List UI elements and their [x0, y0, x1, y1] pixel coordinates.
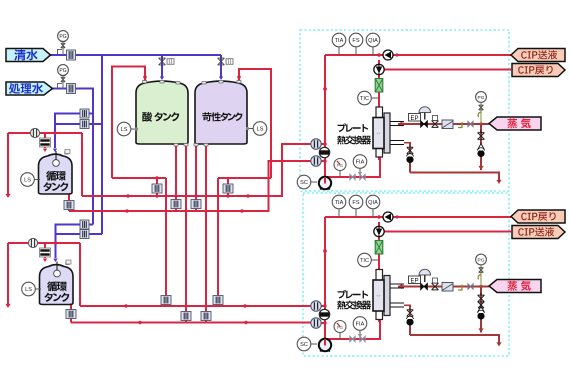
instrument LS tank4 [22, 282, 41, 296]
wire U1 exchanger outlet drop [378, 153, 380, 160]
instrument TIA U1 [332, 33, 346, 55]
wire tank1 inlet header y133 [8, 132, 82, 134]
wire 清水 branch down at x102 [101, 55, 103, 124]
strainer ST2 [442, 283, 453, 292]
svg-text:TIA: TIA [335, 38, 344, 44]
node 処理水 source [6, 82, 53, 95]
wire header y178 left segment [112, 177, 166, 179]
label 循環タンク T3 [43, 171, 68, 192]
actuator dome EP1 [419, 107, 431, 120]
node CIP戻り U2 [511, 210, 565, 223]
svg-text:TIA: TIA [335, 200, 344, 206]
svg-text:PG: PG [59, 68, 66, 74]
check valve CV3 CIP supply [383, 50, 393, 60]
wire U1 pump riser [323, 55, 327, 177]
wire drain drop x8 upper [5, 133, 10, 198]
gauge PG2 on 処理水 [58, 65, 69, 89]
wire U2 exchanger outlet drop [378, 315, 380, 322]
instrument SC U1 [297, 175, 311, 189]
control valve PCV2 steam [421, 283, 428, 290]
instrument FS U1 [349, 33, 363, 55]
wire U1 instrument header [325, 53, 511, 57]
valve SV2a discharge [350, 336, 355, 341]
node 清水 source [6, 49, 51, 62]
tank T1 acid [136, 81, 188, 147]
svg-text:TIC: TIC [360, 96, 369, 102]
wire CIP1 suction bus y196 [82, 144, 311, 198]
svg-text:QIA: QIA [368, 38, 378, 44]
wire CIP1 return bus y211 [69, 161, 311, 213]
label EP U2 [409, 276, 421, 284]
wire U2 steam supply [398, 284, 489, 289]
wire U1 return stub [311, 160, 325, 162]
label プレート熱交換器 U1 [337, 124, 371, 145]
valve AV2 CIP return [374, 226, 384, 236]
actuator dome EP2 [419, 269, 431, 282]
label EP U1 [409, 114, 421, 122]
plate heat exchanger E2 [373, 270, 390, 320]
valve GV1a suction [311, 139, 321, 149]
gauge PG U1 pump [334, 159, 346, 178]
valve relief RV1 [478, 144, 484, 150]
svg-text:PG: PG [478, 258, 485, 264]
tank T4 circulation [40, 260, 74, 305]
valve GV2b return [311, 318, 321, 328]
wire caustic tank outlet right [205, 144, 207, 323]
wire U2 return stub [311, 322, 325, 324]
pump P2 [311, 339, 331, 352]
valve XS2c bypass [478, 293, 485, 302]
wire acid tank outlet right [185, 144, 187, 323]
label 酸 タンク [142, 112, 179, 122]
wire U2 steam bypass drop [478, 287, 483, 333]
instrument TIA U2 [332, 195, 346, 217]
pump P1 [311, 177, 331, 190]
valve relief RV2 [478, 306, 484, 312]
wire U2 suction stub [311, 305, 325, 307]
tank T3 circulation [39, 150, 73, 195]
trap ball BT2a [477, 310, 484, 319]
wire tank2 water feed branch x102 [101, 124, 103, 234]
wire U2 steam PG stem [480, 266, 482, 287]
valve V10 drop x228 [223, 184, 233, 193]
instrument TIC U2 [358, 253, 379, 267]
trap TD1 [458, 122, 462, 128]
valve V16 bus4 x206 [201, 312, 211, 321]
valve V1 on 清水 [67, 50, 76, 60]
wire 清水 drop to acid tank valve [160, 55, 164, 80]
wire acid tank outlet left [174, 144, 177, 211]
svg-text:FS: FS [352, 38, 359, 44]
wire U2 heater riser [378, 222, 380, 269]
valve V2 on 処理水 [67, 84, 76, 94]
svg-text:PG: PG [59, 34, 66, 40]
valve V13 riser x166 [161, 296, 171, 305]
instrument LS tank3 [21, 173, 40, 187]
valve XS1a [432, 116, 439, 128]
wire U1 pump discharge [323, 155, 380, 179]
valve BV1 crossover [319, 147, 329, 157]
valve XV1 acid tank water inlet [159, 58, 174, 65]
valve V5 tank2 upper water [80, 220, 89, 229]
sight glass FG2 [28, 238, 57, 247]
svg-text:LS: LS [257, 127, 264, 133]
label プレート熱交換器 U2 [337, 290, 371, 310]
wire U1 suction stub [311, 143, 325, 145]
strainer ST1 [442, 120, 453, 129]
wire 清水 drop to caustic tank valve [219, 55, 223, 80]
valve XV2 caustic tank water inlet [218, 58, 233, 65]
wire header y178 right segment [218, 177, 271, 179]
valve V4 tank1 lower water [80, 120, 89, 129]
svg-text:SC: SC [300, 180, 308, 186]
svg-text:LS: LS [25, 287, 32, 293]
valve V7 tank1 outlet [64, 201, 74, 210]
valve V6 tank2 lower water [80, 230, 89, 239]
svg-text:++: ++ [376, 131, 382, 136]
instrument SC U2 [297, 337, 311, 351]
sight glass FG1 [30, 128, 56, 137]
valve XS2d condensate [407, 310, 413, 316]
valve V8 tank2 outlet [66, 310, 76, 319]
wire 処理水 header [52, 89, 93, 114]
wire U2 condensate from exchanger [404, 305, 410, 335]
wire U1 steam bypass drop [478, 124, 483, 170]
wire U2 condensate drain header [410, 335, 502, 347]
check valve CV1 tank1 feed [40, 138, 51, 147]
valve V3 tank1 upper water [80, 109, 89, 118]
wire U1 CIP return line [384, 69, 511, 71]
instrument QIA U1 [366, 33, 380, 55]
wire tank2 water feed branch x93 [92, 114, 94, 225]
valve XS2a [432, 278, 439, 290]
wire tank1 water feed lower [55, 123, 102, 125]
wire tank2 top feed drop [43, 243, 47, 262]
label 苛性タンク [202, 112, 242, 121]
valve V15 bus4 x186 [181, 312, 191, 321]
wire drain drop x8 lower [5, 243, 10, 308]
svg-text:FS: FS [352, 200, 359, 206]
control valve PCV1 steam [421, 121, 428, 128]
wire U2 instrument header [325, 215, 511, 219]
svg-text:TIC: TIC [360, 258, 369, 264]
wire U2 pump discharge [323, 317, 380, 341]
plate heat exchanger E1 [373, 107, 390, 157]
valve XS1b [468, 122, 473, 127]
instrument FIA U2 [353, 317, 367, 339]
flex joint FJ2 [375, 241, 383, 255]
wire U1 steam supply [398, 121, 489, 126]
wire riser x218 to CIP2 bus [217, 178, 219, 306]
trap ball BT2b [406, 316, 413, 325]
wire riser x166 to CIP2 bus [165, 178, 167, 306]
gauge PG1 on 清水 [58, 31, 69, 55]
svg-text:SC: SC [300, 342, 308, 348]
node CIP戻り U1 [512, 64, 565, 77]
svg-text:PG: PG [337, 163, 343, 168]
wire CIP2 suction bus y306 [80, 304, 311, 307]
valve XS1c bypass [478, 130, 485, 139]
valve V9 drop x157 [152, 184, 162, 193]
valve XS2e bypass extra [478, 302, 484, 308]
wire U1 condensate from exchanger [404, 143, 410, 173]
trap TD2 [458, 285, 462, 291]
gauge PG U1 steam [476, 92, 487, 117]
wire CIP2 return bus y322 [71, 321, 311, 324]
node 蒸気 U2 [489, 280, 541, 293]
svg-text:EP: EP [410, 278, 418, 284]
node 蒸気 U1 [489, 117, 541, 130]
wire tank2 bottom outlet [70, 304, 72, 323]
valve GV2a suction [311, 301, 321, 311]
wire caustic tank outlet left [194, 144, 197, 211]
valve SV1a discharge [350, 174, 355, 179]
wire tank1 water feed upper [53, 114, 93, 153]
wire U1 heater riser [378, 60, 380, 107]
wire tank2 inlet header y243 [8, 242, 80, 244]
node CIP送液 U1 [511, 49, 565, 62]
valve XS1d condensate [407, 147, 413, 153]
instrument TIC U1 [358, 91, 379, 105]
valve V11 acid outlet [171, 200, 181, 209]
wire riser x80 tank2 side [79, 243, 81, 306]
valve BV2 crossover [319, 309, 329, 319]
wire tank2 water feed upper [53, 225, 93, 263]
instrument QIA U2 [366, 195, 380, 217]
wire valve drop x228 [226, 178, 229, 198]
check valve CV4 CIP supply [383, 212, 393, 222]
wire tank1 top feed drop [43, 133, 47, 152]
valve V14 riser x218 [213, 296, 223, 305]
svg-text:++: ++ [376, 294, 382, 299]
wire valve drop x157 [155, 176, 158, 197]
tank T2 caustic [194, 81, 247, 147]
wire U1 steam PG stem [480, 103, 482, 124]
svg-text:PG: PG [478, 95, 485, 101]
valve GV1b return [311, 156, 321, 166]
check valve CV2 tank2 feed [40, 248, 51, 257]
wire tank2 water feed lower [56, 233, 103, 235]
instrument LS acid [117, 122, 138, 136]
svg-text:FIA: FIA [356, 322, 365, 328]
wire acid tank top spray line [112, 67, 147, 179]
valve SV1b discharge [360, 174, 365, 179]
valve SV2b discharge [360, 336, 365, 341]
svg-text:EP: EP [410, 116, 418, 122]
valve V12 caustic outlet [191, 200, 201, 209]
flex joint FJ1 [375, 79, 383, 93]
wire U2 pump riser [323, 217, 327, 339]
instrument FIA U1 [353, 155, 367, 177]
gauge PG U2 pump [334, 321, 346, 340]
wire U1 condensate drain header [410, 173, 502, 185]
wire U2 exchanger steam stub pair [390, 284, 404, 307]
CIP unit 2 dashed enclosure [303, 193, 509, 356]
valve AV1 CIP return [374, 64, 384, 74]
svg-text:QIA: QIA [368, 200, 378, 206]
svg-text:LS: LS [121, 127, 128, 133]
trap ball BT1b [406, 154, 413, 163]
svg-text:LS: LS [24, 178, 31, 184]
wire tank1 bottom outlet [68, 194, 70, 211]
node CIP送液 U2 [512, 226, 565, 239]
gauge PG U2 steam [476, 254, 487, 279]
CIP unit 1 dashed enclosure [300, 30, 509, 191]
wire U1 exchanger steam stub pair [390, 122, 404, 145]
trap ball BT1a [477, 148, 484, 157]
wire caustic tank top spray line [237, 69, 271, 178]
svg-text:PG: PG [337, 325, 343, 330]
label 循環タンク T4 [44, 281, 69, 302]
wire 清水 header [50, 54, 221, 56]
svg-text:FIA: FIA [356, 160, 365, 166]
instrument LS caustic [246, 122, 267, 136]
valve XS2b [468, 284, 473, 289]
instrument FS U2 [349, 195, 363, 217]
wire U2 CIP return line [384, 231, 511, 233]
wire riser x82 tank1 side [81, 133, 83, 196]
